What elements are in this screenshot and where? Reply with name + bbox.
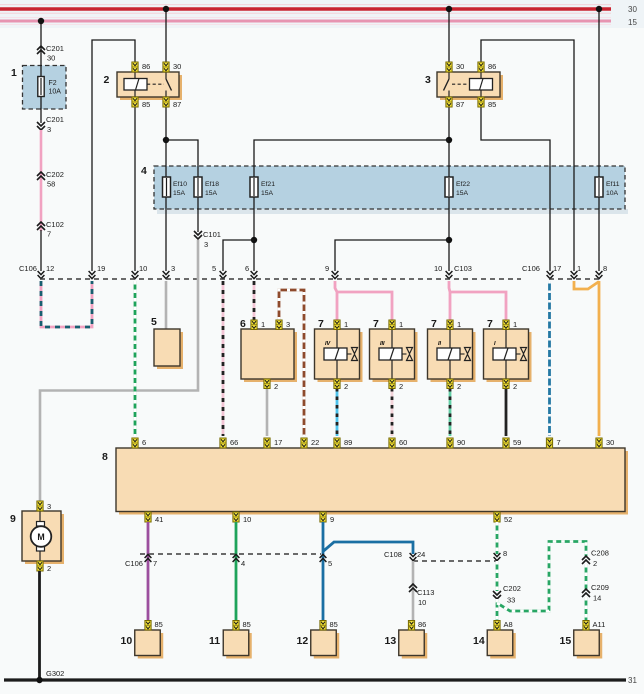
svg-text:15A: 15A <box>261 190 274 197</box>
wire green/white pin10 to ECU pin6 <box>134 281 137 436</box>
svg-text:3: 3 <box>204 240 208 249</box>
wire below Ef11 to C106-8 <box>596 197 603 279</box>
svg-text:30: 30 <box>456 62 464 71</box>
svg-text:C106: C106 <box>19 264 37 273</box>
connector line C106 right (upper) <box>549 278 600 280</box>
junction relay3 on rail 30 <box>446 6 452 12</box>
svg-text:17: 17 <box>553 264 561 273</box>
svg-text:3: 3 <box>47 125 51 134</box>
svg-text:13: 13 <box>385 635 397 647</box>
svg-text:12: 12 <box>297 635 309 647</box>
svg-text:M: M <box>37 532 44 542</box>
label 3 <box>425 74 431 86</box>
relay 2 <box>117 72 182 100</box>
svg-text:30: 30 <box>173 62 181 71</box>
svg-text:87: 87 <box>456 100 464 109</box>
wire pale pink/black injector2 to ECU pin60 <box>391 388 394 436</box>
label 12 <box>297 635 309 647</box>
svg-text:7: 7 <box>431 318 437 330</box>
label 13 <box>385 635 397 647</box>
label 10 <box>121 635 133 647</box>
fuse box 1 (dashed) <box>23 66 67 110</box>
injector3 pin 1 <box>447 320 461 330</box>
relay2 pin 85 <box>132 97 150 109</box>
svg-text:Ef11: Ef11 <box>606 181 620 188</box>
wire relay3 pin87 to fuse Ef22 <box>448 107 450 177</box>
label 9 <box>10 513 16 525</box>
power rail 15 (pink) <box>0 18 611 25</box>
svg-text:4: 4 <box>241 559 245 568</box>
row labels <box>19 264 607 273</box>
svg-text:Ef18: Ef18 <box>205 181 219 188</box>
svg-text:5: 5 <box>151 316 157 328</box>
svg-text:C201: C201 <box>46 44 64 53</box>
svg-text:86: 86 <box>142 62 150 71</box>
svg-text:15: 15 <box>628 18 637 27</box>
svg-text:22: 22 <box>311 438 319 447</box>
svg-text:Ef22: Ef22 <box>456 181 470 188</box>
unit12 pin 85 <box>320 620 338 630</box>
svg-text:7: 7 <box>487 318 493 330</box>
wire relay2 pin30 to rail30 <box>165 10 167 62</box>
svg-text:9: 9 <box>325 264 329 273</box>
svg-text:41: 41 <box>155 515 163 524</box>
wire pink/black pin6 to unit6 pin1 <box>253 281 256 321</box>
svg-text:6: 6 <box>240 318 246 330</box>
unit 6 <box>241 329 297 382</box>
svg-text:7: 7 <box>557 438 561 447</box>
wire orange pin1 jumper <box>574 281 599 289</box>
node label 30 <box>628 5 637 14</box>
branch to fuse Ef18 <box>166 140 198 177</box>
svg-text:3: 3 <box>171 264 175 273</box>
connector C108 pin 8 <box>494 549 508 561</box>
label 14 <box>473 635 485 647</box>
wire black injector4 to ECU pin59 <box>505 388 508 436</box>
label 4 <box>141 165 147 177</box>
svg-text:90: 90 <box>457 438 465 447</box>
wire relay2 pin86 loop to C106-19 <box>89 40 135 279</box>
svg-text:C202: C202 <box>46 170 64 179</box>
svg-text:19: 19 <box>97 264 105 273</box>
ECU pin 60 <box>389 438 407 448</box>
svg-text:66: 66 <box>230 438 238 447</box>
label 7 <box>318 318 324 330</box>
label 15 <box>560 635 572 647</box>
svg-text:C102: C102 <box>46 220 64 229</box>
unit14 pin A8 <box>494 620 513 630</box>
svg-text:II: II <box>438 341 442 347</box>
wire green/white below pin8 <box>496 561 499 591</box>
fuse Ef22 15A <box>445 177 470 197</box>
connector C102 pin 7 <box>37 220 64 239</box>
svg-text:1: 1 <box>457 320 461 329</box>
svg-text:15A: 15A <box>173 190 186 197</box>
unit10 pin 85 <box>145 620 163 630</box>
svg-text:C106: C106 <box>125 559 143 568</box>
label 11 <box>209 635 220 647</box>
svg-text:30: 30 <box>47 54 55 63</box>
svg-text:G302: G302 <box>46 669 64 678</box>
svg-text:7: 7 <box>373 318 379 330</box>
svg-text:1: 1 <box>399 320 403 329</box>
connector C106 pin 7 <box>125 554 157 568</box>
label 7 <box>487 318 493 330</box>
svg-text:7: 7 <box>318 318 324 330</box>
junction Ef11 on rail 30 <box>596 6 602 12</box>
svg-text:30: 30 <box>628 5 637 14</box>
unit 14 <box>487 630 516 659</box>
unit6 pin 3 <box>276 320 290 330</box>
ECU pin 7 <box>546 438 560 448</box>
svg-text:6: 6 <box>142 438 146 447</box>
svg-text:85: 85 <box>142 100 150 109</box>
junction wire87b <box>446 137 452 143</box>
wire rail30 to fuse Ef11 <box>598 10 600 177</box>
injector3 pin 2 <box>447 379 461 391</box>
wire green/white ECU52 to unit14 <box>496 522 499 554</box>
relay2 pin 30 <box>163 62 181 72</box>
branch to pin 9 <box>332 240 449 279</box>
svg-text:30: 30 <box>606 438 614 447</box>
label 2 <box>104 74 110 86</box>
unit 10 <box>135 630 164 659</box>
svg-text:6: 6 <box>245 264 249 273</box>
label 7 <box>431 318 437 330</box>
svg-text:14: 14 <box>593 594 601 603</box>
junction below Ef22 <box>446 237 452 243</box>
svg-text:52: 52 <box>504 515 512 524</box>
svg-text:A11: A11 <box>593 620 606 629</box>
unit 13 <box>399 630 428 659</box>
svg-text:1: 1 <box>344 320 348 329</box>
svg-text:9: 9 <box>330 515 334 524</box>
unit 5 <box>154 329 183 369</box>
svg-text:7: 7 <box>153 559 157 568</box>
svg-text:2: 2 <box>457 382 461 391</box>
connector C113 pin 10 <box>409 584 434 607</box>
svg-text:17: 17 <box>274 438 282 447</box>
connector line C106/C103 (upper) <box>40 278 521 280</box>
fuse Ef11 10A <box>595 177 620 197</box>
wire blue ECU9 to unit12 and C108-24 <box>323 522 413 621</box>
unit15 pin A11 <box>583 620 605 630</box>
svg-text:C101: C101 <box>203 230 221 239</box>
branch to pin 5 <box>220 240 254 279</box>
wire teal/black injector3 to ECU pin90 <box>449 388 452 436</box>
svg-text:F2: F2 <box>49 80 57 87</box>
fuse Ef18 15A <box>194 177 219 197</box>
connector C106 pin 4 <box>233 554 246 568</box>
svg-text:12: 12 <box>46 264 54 273</box>
ground rail 31 <box>4 678 626 681</box>
svg-text:85: 85 <box>243 620 251 629</box>
svg-text:89: 89 <box>344 438 352 447</box>
motor unit 9 <box>22 511 64 564</box>
unit 11 <box>223 630 252 659</box>
svg-text:2: 2 <box>274 382 278 391</box>
wire brown unit6 pin3 to ECU pin22 <box>279 290 304 436</box>
svg-text:2: 2 <box>399 382 403 391</box>
wire green/white branch to unit15 <box>497 542 586 612</box>
svg-text:11: 11 <box>209 635 220 647</box>
wire pink pin9 to injectors 1,2 <box>335 281 392 321</box>
unit 12 <box>311 630 340 659</box>
wire gray C108 to unit13 <box>412 561 415 621</box>
wire blue/white pin17 to ECU pin7 <box>548 281 551 436</box>
svg-text:A8: A8 <box>504 620 513 629</box>
svg-text:C202: C202 <box>503 584 521 593</box>
wire C102 to C106-12 <box>38 230 45 279</box>
label 8 <box>102 451 108 463</box>
svg-text:Ef10: Ef10 <box>173 181 187 188</box>
ECU pin 90 <box>447 438 465 448</box>
wire orange pin8 to ECU pin30 <box>598 281 601 436</box>
relay2 pin 86 <box>132 62 150 72</box>
injector2 pin 2 <box>389 379 403 391</box>
relay2 pin 87 <box>163 97 181 109</box>
svg-text:2: 2 <box>593 559 597 568</box>
wire relay3 pin86 to C106-1 <box>481 40 577 279</box>
fuse Ef10 15A <box>163 177 188 197</box>
svg-text:2: 2 <box>344 382 348 391</box>
label F2 10A <box>49 80 62 96</box>
svg-text:C103: C103 <box>454 264 472 273</box>
svg-text:85: 85 <box>330 620 338 629</box>
relay3 pin 86 <box>478 62 496 72</box>
svg-text:7: 7 <box>47 230 51 239</box>
wire below Ef22 to C103-10 <box>446 197 453 279</box>
svg-text:C208: C208 <box>591 549 609 558</box>
relay3 pin 30 <box>446 62 464 72</box>
connector C202 pin 33 <box>493 584 521 605</box>
injector1 pin 2 <box>334 379 348 391</box>
wire green/white C208-C209 <box>585 564 588 589</box>
ECU pin 30 <box>596 438 614 448</box>
svg-text:58: 58 <box>47 180 55 189</box>
svg-text:33: 33 <box>507 596 515 605</box>
wire: rail15 to fuse F2 / connector C201-30 <box>40 21 42 110</box>
svg-text:60: 60 <box>399 438 407 447</box>
svg-text:31: 31 <box>628 676 637 685</box>
junction wire87 <box>163 137 169 143</box>
branch to fuse Ef21 <box>254 140 449 177</box>
svg-text:3: 3 <box>286 320 290 329</box>
ECU pin 41 <box>145 512 163 524</box>
unit6 pin 2 <box>264 379 278 391</box>
ground junction G302 <box>36 669 64 683</box>
svg-text:Ef21: Ef21 <box>261 181 275 188</box>
ECU pin 66 <box>220 438 238 448</box>
wire ltblue/black injector1 to ECU pin89 <box>336 388 339 436</box>
connector line C108 (lower) <box>413 560 497 562</box>
svg-text:24: 24 <box>417 550 425 559</box>
relay3 pin 85 <box>478 97 496 109</box>
svg-text:1: 1 <box>513 320 517 329</box>
unit13 pin 86 <box>408 620 426 630</box>
svg-text:3: 3 <box>47 502 51 511</box>
svg-text:3: 3 <box>425 74 431 86</box>
svg-text:C201: C201 <box>46 115 64 124</box>
svg-text:86: 86 <box>418 620 426 629</box>
ECU pin 59 <box>503 438 521 448</box>
label 7 <box>373 318 379 330</box>
ECU pin 89 <box>334 438 352 448</box>
wire relay2 pin85 to C106-10 <box>132 107 139 279</box>
wire relay2 pin87 to fuse Ef10 <box>165 107 167 177</box>
wire gray pin3 to unit 5 <box>165 281 168 330</box>
wire pink C103-10 to injectors 3,4 <box>449 281 506 321</box>
connector C101 pin 3 <box>194 230 221 249</box>
junction below Ef21 <box>251 237 257 243</box>
relay3 pin 87 <box>446 97 464 109</box>
fuse block 4 <box>154 166 628 214</box>
injector 7 (III) <box>370 329 418 382</box>
relay 3 <box>437 72 503 100</box>
svg-text:14: 14 <box>473 635 485 647</box>
ECU pin 17 <box>264 438 282 448</box>
svg-text:5: 5 <box>212 264 216 273</box>
svg-text:8: 8 <box>503 549 507 558</box>
wire pink C201-C202 <box>40 130 43 231</box>
injector4 pin 1 <box>503 320 517 330</box>
svg-text:C108: C108 <box>384 550 402 559</box>
wire green/white C202 to unit14 pinA8 <box>496 599 499 621</box>
svg-text:5: 5 <box>328 559 332 568</box>
ECU unit 8 <box>116 448 628 515</box>
svg-text:C113: C113 <box>417 588 434 597</box>
ECU pin 6 <box>132 438 146 448</box>
fuse F2 10A <box>38 77 44 97</box>
injector1 pin 1 <box>334 320 348 330</box>
power rail 30 (red) <box>0 5 611 14</box>
svg-text:15: 15 <box>560 635 572 647</box>
junction relay2 on rail 30 <box>163 6 169 12</box>
connector C209 pin 14 <box>582 583 609 603</box>
node label 31 <box>628 676 637 685</box>
svg-text:1: 1 <box>11 67 17 79</box>
fuse Ef21 15A <box>250 177 275 197</box>
injector2 pin 1 <box>389 320 403 330</box>
wire motor to ground <box>38 571 41 679</box>
injector 7 (II) <box>428 329 476 382</box>
label 6 <box>240 318 246 330</box>
svg-text:59: 59 <box>513 438 521 447</box>
unit 15 <box>574 630 603 659</box>
svg-text:85: 85 <box>488 100 496 109</box>
wire green ECU10 to unit11 <box>235 522 238 621</box>
junction on rail 15 <box>38 18 44 24</box>
svg-text:8: 8 <box>102 451 108 463</box>
svg-text:9: 9 <box>10 513 16 525</box>
wire pink/black pin5 to ECU pin66 <box>222 281 225 436</box>
svg-text:10: 10 <box>418 598 426 607</box>
svg-text:2: 2 <box>513 382 517 391</box>
wire relay3 pin85 to C106-17 <box>481 107 553 279</box>
connector C108 pin 24 <box>384 550 425 561</box>
node label 15 <box>628 18 637 27</box>
wire below Ef18 to C101-3 <box>197 197 199 232</box>
svg-text:8: 8 <box>603 264 607 273</box>
wire below Ef21 to C106-6 <box>251 197 258 279</box>
wire gray C101 to motor pin3 <box>40 240 198 501</box>
connector C202 pin 58 <box>37 170 64 189</box>
connector C201 pin 3 <box>37 110 64 134</box>
injector 7 (I) <box>484 329 532 382</box>
ECU pin 9 <box>320 512 334 524</box>
svg-text:86: 86 <box>488 62 496 71</box>
ECU pin 10 <box>233 512 251 524</box>
wire relay3 pin30 to rail30 <box>448 10 450 62</box>
svg-text:15A: 15A <box>456 190 469 197</box>
svg-text:10: 10 <box>121 635 133 647</box>
svg-text:85: 85 <box>155 620 163 629</box>
injector4 pin 2 <box>503 379 517 391</box>
motor pin 3 <box>37 501 51 511</box>
svg-text:2: 2 <box>104 74 110 86</box>
connector C106 pin 5 <box>320 554 333 568</box>
ECU pin 22 <box>301 438 319 448</box>
svg-text:C106: C106 <box>522 264 540 273</box>
connector C208 pin 2 <box>582 549 609 569</box>
motor pin 2 <box>37 561 51 573</box>
svg-text:4: 4 <box>141 165 147 177</box>
svg-text:2: 2 <box>47 564 51 573</box>
ECU pin 52 <box>494 512 512 524</box>
wire green/white C209 to unit15 pinA11 <box>585 597 588 621</box>
svg-text:III: III <box>380 341 385 347</box>
wire purple ECU41 to unit10 <box>147 522 150 621</box>
svg-text:10A: 10A <box>606 190 619 197</box>
connector line C106 (lower) <box>140 553 321 555</box>
unit6 pin 1 <box>251 320 265 330</box>
svg-text:1: 1 <box>577 264 581 273</box>
wire gray unit6 pin2 to ECU pin17 <box>266 388 269 436</box>
svg-text:87: 87 <box>173 100 181 109</box>
svg-text:10A: 10A <box>49 89 62 96</box>
unit11 pin 85 <box>233 620 251 630</box>
svg-text:15A: 15A <box>205 190 218 197</box>
label 5 <box>151 316 157 328</box>
injector 7 (IV) <box>315 329 363 382</box>
label 1 <box>11 67 17 79</box>
svg-text:10: 10 <box>243 515 251 524</box>
connector C201 pin 30 <box>37 44 64 63</box>
svg-text:10: 10 <box>434 264 442 273</box>
svg-text:C209: C209 <box>591 583 609 592</box>
wire pink/teal loop pin12-pin19 <box>41 281 92 327</box>
wire below Ef10 to C106-3 <box>163 197 170 279</box>
svg-text:1: 1 <box>261 320 265 329</box>
svg-text:10: 10 <box>139 264 147 273</box>
